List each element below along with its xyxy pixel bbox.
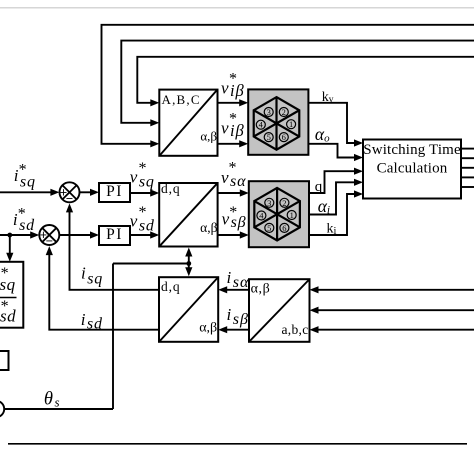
svg-text:*: * [1,298,9,315]
svg-text:*: * [139,160,147,177]
svg-text:−: − [46,234,53,248]
svg-text:*: * [1,265,9,282]
svg-text:Calculation: Calculation [377,161,448,177]
svg-text:α,β: α,β [251,282,271,297]
svg-text:*: * [229,111,237,128]
svg-text:4: 4 [259,120,264,130]
svg-text:6: 6 [282,223,286,233]
svg-text:3: 3 [267,198,271,208]
svg-text:1: 1 [290,210,294,220]
svg-text:5: 5 [267,132,271,142]
svg-text:PI: PI [106,183,123,200]
svg-text:2: 2 [282,198,286,208]
svg-text:Switching Time: Switching Time [363,142,461,158]
svg-text:*: * [229,71,237,88]
svg-text:α,β: α,β [200,129,217,144]
svg-text:−: − [66,191,73,205]
svg-text:2: 2 [282,107,286,117]
svg-text:*: * [19,161,27,178]
svg-text:*: * [18,205,26,222]
svg-text:a,b,c: a,b,c [282,322,309,337]
svg-text:α,β: α,β [200,220,217,235]
svg-text:4: 4 [259,211,264,221]
svg-text:A,B,C: A,B,C [162,92,201,107]
svg-text:1: 1 [289,119,293,129]
svg-text:PI: PI [106,226,123,243]
svg-text:*: * [229,204,237,221]
svg-text:d,q: d,q [161,279,181,294]
svg-text:d,q: d,q [161,181,181,196]
svg-text:*: * [139,204,147,221]
svg-text:5: 5 [267,223,271,233]
svg-text:6: 6 [282,132,286,142]
svg-text:3: 3 [267,107,271,117]
svg-text:q: q [315,179,323,195]
svg-text:α,β: α,β [199,321,217,336]
svg-text:*: * [229,160,237,177]
